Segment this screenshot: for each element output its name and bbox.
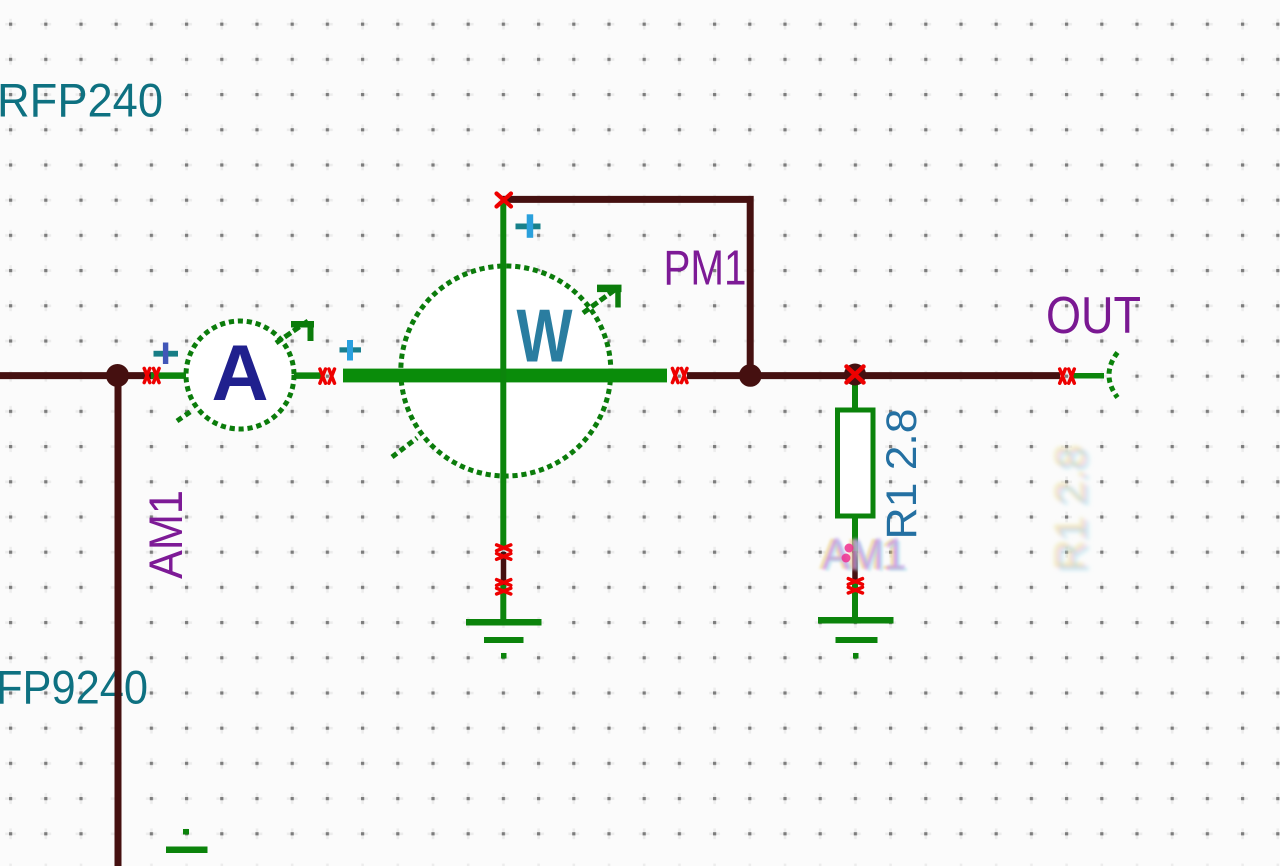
wire vertical from node at x=118 down to bottom edge [115,376,122,866]
resistor R1 bottom stub [852,514,858,553]
ghost artifact magenta dots [842,544,854,563]
red connection x pair (wattmeter right) [672,368,687,382]
svg-text:A: A [211,328,268,417]
junction node at x=855 [844,364,866,386]
resistor ground stem [852,582,858,620]
red connection x pairs (wattmeter bottom) [497,545,511,594]
ammeter AM1 right green stub [292,372,324,379]
wattmeter PM1 thick current bar [343,369,667,383]
plus polarity mark (ammeter) [154,343,179,365]
resistor R1 top stub [852,381,858,412]
wattmeter PM1 circle [401,266,611,476]
output green stub [1072,373,1104,379]
svg-text:W: W [517,294,573,378]
svg-text:FP9240: FP9240 [0,661,148,714]
ammeter AM1 arrow [177,321,314,421]
resistor R1 bottom maroon segment [852,551,858,584]
wire main horizontal right segment [687,372,1060,379]
red connection x pair (ammeter left) [144,368,159,382]
ghost artifact text near resistor bottom [819,529,909,581]
plus polarity mark (wattmeter voltage) [516,214,541,238]
wattmeter PM1 arrow [392,286,622,457]
svg-text:R1 2.8: R1 2.8 [879,409,926,540]
red connection x pair (resistor bottom) [848,579,862,593]
svg-text:AM1: AM1 [139,490,192,579]
wattmeter PM1 vertical voltage wire [500,202,506,546]
junction node at x=118 [106,364,129,387]
svg-text:PM1: PM1 [664,241,747,296]
plus polarity mark (wattmeter current) [340,340,362,361]
ammeter AM1 circle [186,321,294,429]
ammeter AM1 left green stub [151,372,188,379]
red connection x pair (ammeter right) [320,369,335,383]
resistor R1 body [838,410,874,516]
svg-text:R1 2.8: R1 2.8 [1051,448,1098,574]
red connection X over node 855 [847,367,864,383]
junction node at x=750 [739,364,762,387]
wire PM1 top loop: horizontal y=200 then down to junction [502,199,750,375]
svg-text:AM1: AM1 [823,529,907,578]
wire main horizontal left segment [0,372,153,379]
ghost artifact rotated text right side [1045,444,1098,574]
svg-text:OUT: OUT [1046,286,1141,344]
svg-text:RFP240: RFP240 [0,74,163,127]
output terminal arc [1109,353,1118,398]
wattmeter PM1 bottom maroon wire segment [501,552,507,587]
ground (wattmeter) [466,619,542,659]
wattmeter ground stem [500,585,506,622]
ground (resistor) [818,617,894,659]
red connection X (wattmeter top corner) [497,194,512,207]
partial symbol bottom-left (flipped ground top) [166,829,208,853]
red connection x pair (output) [1060,369,1075,383]
